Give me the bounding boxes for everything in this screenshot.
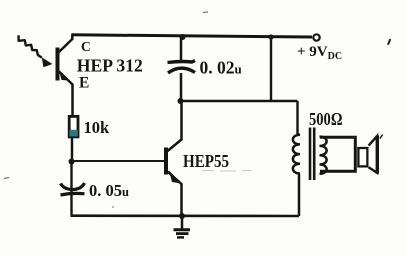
transformer T1 secondary winding [320,137,327,174]
svg-text:E: E [79,75,89,92]
node dot rail/feed [268,34,273,39]
wire R1 to node [71,138,74,161]
Q2 emitter lead with arrow [168,172,182,217]
speaker LS1 driver [358,148,367,166]
faint scan dashes below HEP55 [202,170,252,173]
transistor Q2 HEP55 bar [164,148,168,175]
secondary loop to speaker [320,137,355,171]
Q1 emitter lead with arrow [59,72,73,116]
stray scan mark top right [388,39,390,45]
wire node to transformer feed [180,100,298,102]
capacitor C1 0.02u plates [168,61,196,63]
capacitor C2 0.05u plates [61,183,85,190]
speaker LS1 cone [369,136,378,173]
svg-text:500Ω: 500Ω [309,109,343,129]
+9V terminal circle [313,34,319,40]
top +9V rail [71,35,312,37]
Q1 collector lead [59,35,72,52]
svg-text:C: C [81,39,91,54]
svg-text:10k: 10k [84,118,111,137]
Q2 collector lead [168,102,182,151]
ground [181,216,184,229]
stray scan mark left [4,178,9,179]
transistor Q1 HEP312 bar [56,48,60,81]
bottom rail [71,214,300,217]
stray dash top middle [203,11,208,14]
wire node down through C2 [70,162,72,215]
svg-text:HEP55: HEP55 [183,151,229,171]
node dot R1/base [69,159,75,165]
node dot C1/collector [178,98,184,104]
node dot emitter/rail [179,213,185,219]
capacitor C1 0.02u top wire [180,38,183,60]
resistor R1 10k body [69,116,78,136]
antenna input wavy wire to Q1 base [19,35,42,57]
transformer T1 core [309,128,312,181]
transformer T1 primary winding [293,135,300,217]
node dot rail/C1 [180,34,186,40]
capacitor C1 bottom wire [180,73,183,101]
speaker cone tick [380,135,383,139]
wire base of Q2 [74,160,164,162]
wire rail drop at x271 [270,37,272,101]
wire down to primary [296,101,298,135]
stray speck [112,206,114,208]
svg-text:HEP 312: HEP 312 [77,56,143,76]
Q1 base arrowhead [42,57,53,67]
